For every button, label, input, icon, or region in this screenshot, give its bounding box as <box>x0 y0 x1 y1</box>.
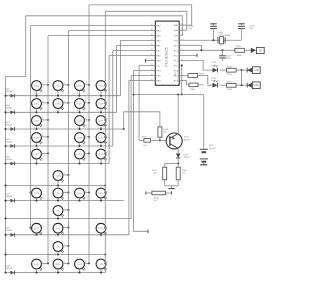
svg-text:RC2: RC2 <box>174 60 179 62</box>
svg-text:RC5: RC5 <box>174 75 179 77</box>
svg-text:X101: X101 <box>219 32 225 34</box>
svg-text:C102: C102 <box>250 26 256 28</box>
svg-text:OS1: OS1 <box>174 35 179 37</box>
svg-text:R110: R110 <box>227 66 233 68</box>
svg-text:1M: 1M <box>154 200 157 202</box>
svg-text:100R: 100R <box>237 55 242 57</box>
svg-text:R104: R104 <box>142 136 148 138</box>
svg-text:2x1.5V: 2x1.5V <box>209 148 216 150</box>
svg-text:L1B: L1B <box>254 69 259 72</box>
svg-text:T101: T101 <box>184 137 190 139</box>
svg-text:1N4148: 1N4148 <box>5 196 12 198</box>
svg-text:470R: 470R <box>227 89 232 91</box>
svg-text:BC327: BC327 <box>184 139 191 141</box>
svg-text:1N4148: 1N4148 <box>5 108 12 110</box>
svg-text:470R: 470R <box>227 74 232 76</box>
svg-text:MCL: MCL <box>174 45 179 47</box>
svg-text:OS2: OS2 <box>174 40 179 42</box>
svg-text:1N4148: 1N4148 <box>5 268 12 270</box>
svg-text:C103: C103 <box>226 56 232 58</box>
svg-text:R101: R101 <box>236 46 242 48</box>
svg-text:RC3: RC3 <box>174 65 179 67</box>
svg-text:R105: R105 <box>199 73 205 75</box>
svg-text:ZPD4.7: ZPD4.7 <box>184 157 192 159</box>
svg-text:CX2 4.0MHz: CX2 4.0MHz <box>219 35 231 37</box>
svg-text:47k: 47k <box>182 173 185 175</box>
svg-text:L2B: L2B <box>254 84 259 87</box>
svg-text:1N4148: 1N4148 <box>5 230 12 232</box>
svg-text:LB: LB <box>259 49 262 52</box>
svg-text:RC6: RC6 <box>174 80 179 82</box>
svg-text:1N4148: 1N4148 <box>5 124 12 126</box>
svg-text:RC1: RC1 <box>174 55 179 57</box>
svg-text:C101: C101 <box>189 26 195 28</box>
svg-text:R108: R108 <box>154 197 160 199</box>
svg-text:LED: LED <box>212 80 217 82</box>
svg-text:D102: D102 <box>184 155 190 157</box>
svg-text:47k: 47k <box>153 173 156 175</box>
svg-text:1N4148: 1N4148 <box>5 141 12 143</box>
svg-text:1N4148: 1N4148 <box>5 91 12 93</box>
svg-text:RC0: RC0 <box>174 50 179 52</box>
svg-text:1N4148: 1N4148 <box>5 159 12 161</box>
svg-text:PIC16CE625: PIC16CE625 <box>165 47 169 66</box>
svg-text:RC4: RC4 <box>174 70 179 72</box>
svg-text:R102: R102 <box>163 129 169 131</box>
